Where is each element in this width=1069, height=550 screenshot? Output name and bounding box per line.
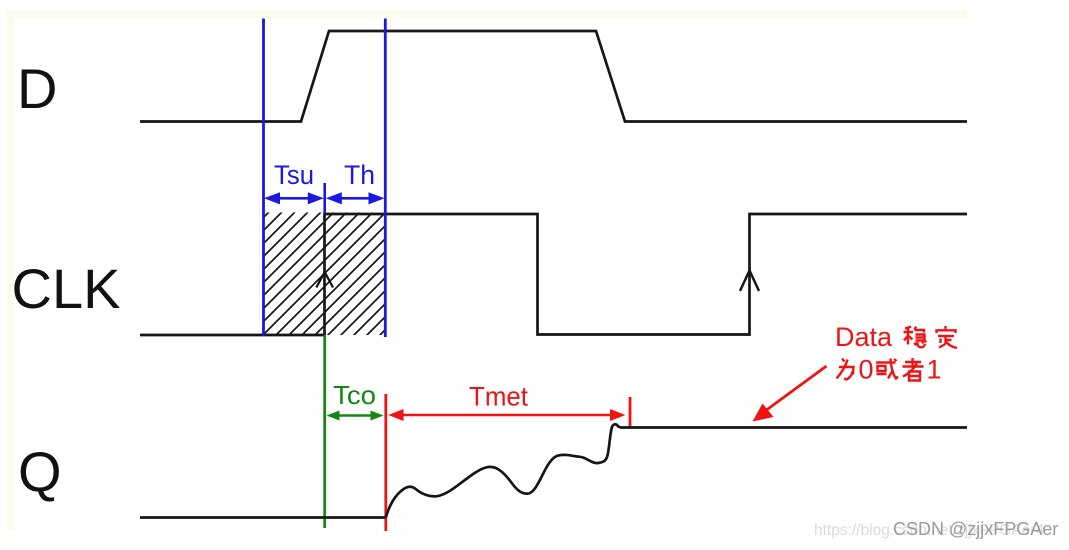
waveform Q low segment — [140, 516, 386, 519]
Tco dimension arrow — [327, 411, 384, 421]
waveform D — [140, 31, 967, 122]
cream left strip — [7, 10, 14, 530]
CJK char zhe — [903, 358, 924, 381]
Tmet dimension arrow — [388, 409, 625, 421]
svg-text:Tsu: Tsu — [274, 160, 314, 190]
waveform Q metastable squiggle — [386, 424, 967, 517]
blue hold boundary line 2 — [384, 19, 387, 338]
waveform CLK — [140, 214, 967, 335]
svg-text:0: 0 — [859, 355, 874, 385]
annotation arrow to stable data — [753, 366, 827, 422]
CJK char wen (stable-1) — [904, 327, 927, 348]
svg-text:Tco: Tco — [333, 380, 376, 410]
cream top strip — [7, 10, 967, 18]
svg-text:CLK: CLK — [12, 257, 121, 320]
svg-text:CSDN @zjjxFPGAer: CSDN @zjjxFPGAer — [893, 519, 1058, 539]
svg-text:Th: Th — [344, 160, 375, 190]
blue center tick at clock edge — [323, 183, 326, 214]
Th dimension arrow — [326, 192, 385, 204]
CJK char ding (stable-2) — [937, 326, 958, 348]
svg-text:D: D — [17, 57, 57, 120]
svg-text:1: 1 — [927, 355, 942, 385]
red settle tick — [629, 397, 632, 427]
green clock-edge reference line — [323, 335, 326, 528]
annotation text Data stable line 1 — [835, 322, 893, 352]
clock edge arrow chevron 1 — [316, 272, 333, 288]
hatched setup/hold region — [263, 213, 386, 336]
svg-text:Tmet: Tmet — [469, 382, 529, 412]
svg-text:Q: Q — [18, 440, 62, 503]
CJK char huo — [876, 359, 898, 379]
svg-text:Data: Data — [835, 322, 893, 352]
Tsu dimension arrow — [264, 192, 324, 204]
blue setup boundary line 1 — [262, 19, 265, 337]
CJK char wei — [837, 359, 855, 381]
clock edge arrow chevron 2 — [740, 271, 759, 292]
red Tco boundary line — [384, 394, 387, 531]
